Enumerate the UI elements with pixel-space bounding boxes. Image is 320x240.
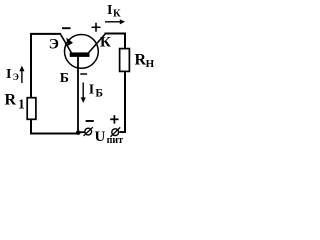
label IЭ current bbox=[6, 67, 19, 82]
terminal minus (clamp) bbox=[84, 127, 93, 136]
label minus at base bbox=[80, 73, 87, 75]
label RН bbox=[135, 52, 155, 70]
wire left vertical lower bbox=[30, 119, 32, 135]
svg-text:1: 1 bbox=[18, 97, 25, 112]
transistor VT circle bbox=[65, 35, 99, 69]
svg-text:К: К bbox=[100, 35, 111, 51]
transistor emitter arrow bbox=[66, 38, 73, 46]
wire top-left horizontal bbox=[30, 33, 61, 35]
svg-text:Б: Б bbox=[60, 71, 69, 86]
svg-text:I: I bbox=[89, 83, 94, 98]
label minus of Uпит bbox=[86, 120, 94, 122]
transistor emitter lead bbox=[61, 34, 72, 53]
wire right vertical bbox=[124, 33, 126, 133]
svg-text:Э: Э bbox=[49, 36, 59, 52]
svg-text:Б: Б bbox=[95, 88, 103, 100]
arrow IЭ bbox=[19, 66, 24, 83]
label plus at collector bbox=[92, 23, 101, 32]
transistor collector lead bbox=[88, 34, 105, 53]
wire base vertical bbox=[77, 56, 79, 133]
arrow IК bbox=[105, 19, 125, 24]
label minus at emitter bbox=[62, 27, 71, 29]
svg-text:Э: Э bbox=[13, 72, 19, 82]
label R1 bbox=[5, 91, 26, 111]
wire junction to minus terminal bbox=[78, 131, 85, 133]
svg-text:U: U bbox=[95, 129, 106, 145]
wire bottom horizontal left bbox=[30, 133, 78, 135]
wire plus terminal to right corner bbox=[119, 131, 126, 133]
svg-text:К: К bbox=[113, 9, 121, 20]
terminal plus (clamp) bbox=[110, 127, 120, 136]
svg-text:Н: Н bbox=[146, 58, 155, 70]
label IК current bbox=[107, 3, 121, 20]
node junction dot bbox=[76, 130, 81, 135]
arrow IБ bbox=[81, 83, 86, 104]
wire left vertical upper bbox=[30, 33, 32, 98]
svg-text:I: I bbox=[107, 3, 112, 18]
svg-text:R: R bbox=[5, 91, 17, 108]
svg-text:пит: пит bbox=[107, 135, 124, 146]
label IБ current bbox=[89, 83, 104, 100]
label plus of Uпит bbox=[110, 115, 118, 124]
transistor base bar bbox=[70, 52, 90, 57]
label Uпит bbox=[95, 129, 124, 146]
svg-text:I: I bbox=[6, 67, 11, 82]
wire top-right horizontal bbox=[105, 33, 127, 35]
resistor R1 body bbox=[27, 98, 36, 120]
resistor RН body bbox=[120, 49, 130, 72]
